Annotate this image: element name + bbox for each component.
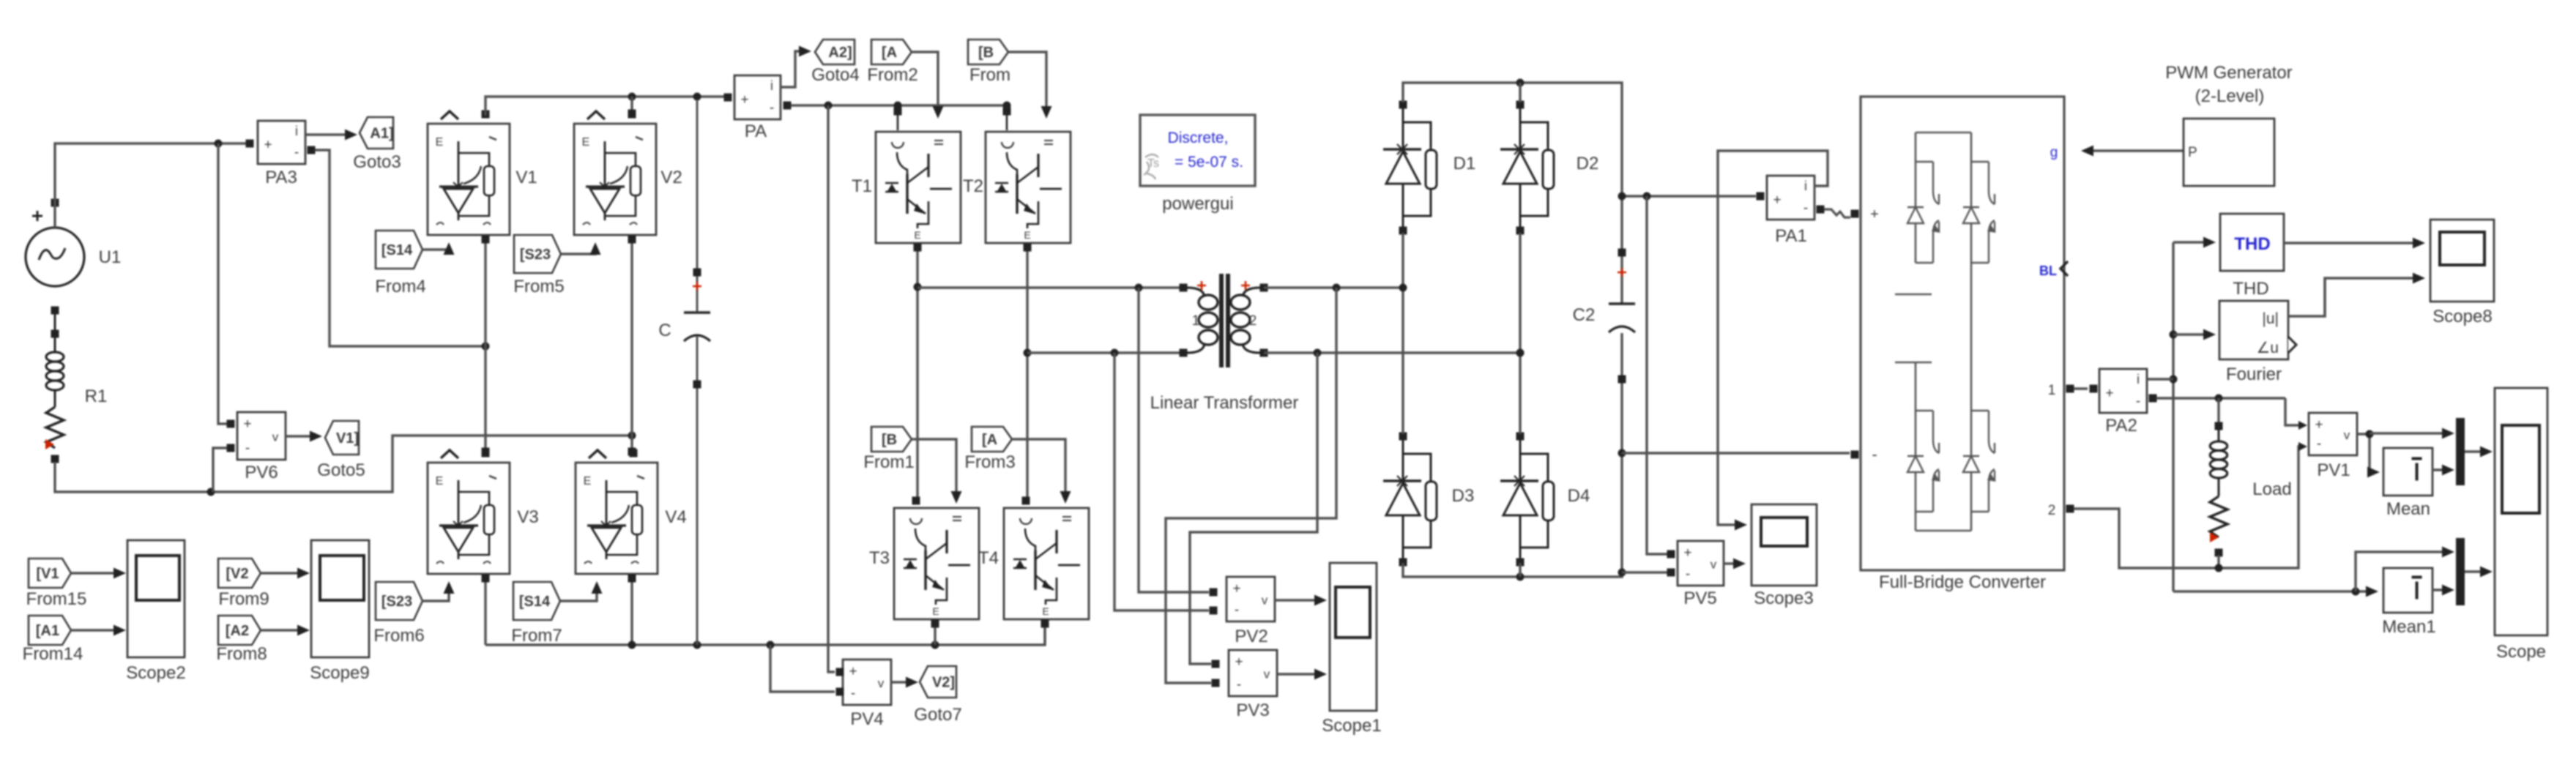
block Mean xyxy=(2383,448,2432,496)
wire Mux1 to Scope xyxy=(2465,567,2493,578)
wire V4 bottom to bus xyxy=(628,575,636,646)
from tag From2 A xyxy=(871,40,912,64)
wire PV5 minus stub xyxy=(1622,571,1668,573)
svg-text:From14: From14 xyxy=(23,644,83,664)
wire PA minus bus xyxy=(791,102,1011,111)
wire From to T2 gate xyxy=(1009,52,1052,119)
svg-text:-: - xyxy=(294,145,299,160)
load branch RL xyxy=(2210,398,2227,568)
svg-text:From3: From3 xyxy=(964,452,1015,472)
wire PV1 v out xyxy=(2357,430,2380,478)
svg-text:V3: V3 xyxy=(517,507,538,527)
svg-text:v: v xyxy=(2344,428,2350,442)
svg-text:P: P xyxy=(2188,145,2197,160)
igbt T4 xyxy=(1004,508,1089,619)
label V4 xyxy=(665,507,686,527)
svg-text:PV3: PV3 xyxy=(1236,701,1269,720)
wire From7 to V4 gate xyxy=(561,581,603,601)
svg-text:Scope9: Scope9 xyxy=(310,663,369,683)
svg-text:∠u: ∠u xyxy=(2256,340,2279,356)
wire PV2 plus xyxy=(1139,288,1209,592)
label From14 xyxy=(23,644,83,664)
label Scope8 xyxy=(2432,307,2492,326)
svg-text:C: C xyxy=(658,321,671,340)
wire DC plus node xyxy=(1618,193,1757,201)
svg-text:i: i xyxy=(770,78,773,93)
from tag From6 S23 xyxy=(376,582,422,620)
wire THD to Scope8 xyxy=(2284,238,2425,249)
wire Fourier u to Scope8 xyxy=(2288,273,2425,317)
label D2 xyxy=(1577,154,1599,173)
from tag From B xyxy=(968,40,1008,64)
svg-text:V1: V1 xyxy=(515,168,537,187)
wire D2 anode vertical xyxy=(1516,233,1525,434)
wire From4 to V1 gate xyxy=(423,242,455,255)
svg-text:+: + xyxy=(1235,654,1243,670)
mux Mux1 xyxy=(2456,538,2465,605)
label Goto7 xyxy=(914,705,961,725)
wire V3 bottom to bus xyxy=(482,575,490,646)
svg-text:i: i xyxy=(2137,372,2140,386)
label T2 xyxy=(963,176,983,196)
wire From5 to V2 gate xyxy=(562,242,601,255)
svg-text:PA1: PA1 xyxy=(1775,226,1807,246)
label V2 xyxy=(660,168,682,187)
label Full-Bridge Converter xyxy=(1879,572,2046,592)
igbt T2 xyxy=(986,107,1071,243)
from tag From3 A xyxy=(972,427,1012,452)
svg-text:A1]: A1] xyxy=(370,126,393,142)
svg-text:V2]: V2] xyxy=(932,675,955,691)
wire current to Mean1 xyxy=(2173,586,2378,597)
from tag From8 A2 xyxy=(218,616,261,645)
label D4 xyxy=(1568,486,1590,506)
svg-text:v: v xyxy=(1710,558,1717,572)
from tag From14 A1 xyxy=(29,616,71,645)
svg-text:T1: T1 xyxy=(852,176,872,196)
svg-text:V2: V2 xyxy=(660,168,682,187)
wire PV2 v to Scope1 xyxy=(1275,595,1327,606)
wire D1 anode vertical xyxy=(1399,233,1407,434)
wire rectifier bottom bus xyxy=(1403,382,1626,581)
svg-text:+: + xyxy=(1773,193,1781,208)
thyristor V1 xyxy=(428,111,510,236)
svg-text:Linear Transformer: Linear Transformer xyxy=(1150,393,1299,413)
wire PV3 minus xyxy=(1166,288,1336,683)
goto tag Goto3 A1 xyxy=(360,117,394,149)
voltage measurement PV4 xyxy=(836,660,892,705)
wire U1 top to PA3 input xyxy=(55,140,249,228)
label Mean1 xyxy=(2382,617,2435,637)
current measurement PA3 xyxy=(246,121,316,164)
from tag From1 B xyxy=(871,427,912,452)
svg-text:+: + xyxy=(849,664,857,679)
wire converter out1 to PA2 xyxy=(2074,385,2098,393)
svg-text:E: E xyxy=(582,136,590,149)
svg-text:BL: BL xyxy=(2039,264,2057,278)
wire From9 to Scope9 xyxy=(261,568,310,579)
label From7 xyxy=(511,626,562,646)
svg-text:Scope8: Scope8 xyxy=(2432,307,2492,326)
svg-text:+: + xyxy=(740,92,748,108)
current measurement PA2 xyxy=(2099,369,2157,413)
svg-text:v: v xyxy=(272,430,279,444)
diode D3 xyxy=(1383,433,1437,567)
svg-text:-: - xyxy=(851,686,855,701)
svg-text:T4: T4 xyxy=(978,548,999,568)
svg-text:Goto4: Goto4 xyxy=(811,65,859,85)
label From xyxy=(969,65,1010,85)
svg-text:PV5: PV5 xyxy=(1683,589,1716,608)
wire PV4 minus branch xyxy=(770,645,835,692)
subsystem Full-Bridge Converter xyxy=(1851,97,2074,570)
svg-text:i: i xyxy=(1804,179,1807,193)
label Linear Transformer xyxy=(1150,393,1299,413)
wire From1 to T3 gate xyxy=(912,439,962,504)
wire V2 bottom to V4 top xyxy=(628,236,636,456)
label R1 xyxy=(85,386,108,406)
label PA3 xyxy=(265,168,297,187)
svg-text:R1: R1 xyxy=(85,386,108,406)
wire From3 to T4 gate xyxy=(1013,439,1071,504)
wire PA3 minus down to V1-V3 node xyxy=(315,150,490,351)
scope Scope3 xyxy=(1752,504,1817,586)
svg-text:E: E xyxy=(914,229,920,241)
svg-text:+: + xyxy=(264,137,272,152)
svg-text:v: v xyxy=(1264,668,1270,681)
svg-text:2: 2 xyxy=(2048,503,2056,518)
label Goto4 xyxy=(811,65,859,85)
wire PV1 v to Mux xyxy=(2370,428,2454,439)
wire PA1 i loop to Scope3 xyxy=(1718,151,1828,531)
svg-text:+: + xyxy=(243,417,251,432)
wire measurement tap vertical xyxy=(2170,242,2178,591)
svg-text:T2: T2 xyxy=(963,176,983,196)
current measurement PA1 xyxy=(1757,176,1825,220)
label Scope1 xyxy=(1322,716,1381,736)
svg-text:Scope2: Scope2 xyxy=(126,663,185,683)
svg-text:E: E xyxy=(436,136,444,149)
scope Scope xyxy=(2495,388,2547,635)
goto tag Goto4 A2 xyxy=(815,40,855,64)
voltage measurement PV2 xyxy=(1210,577,1276,621)
svg-text:Scope: Scope xyxy=(2496,642,2546,662)
svg-text:Scope1: Scope1 xyxy=(1322,716,1381,736)
wire From15 to Scope2 xyxy=(71,568,126,579)
wire DC minus bus xyxy=(1622,452,1850,454)
svg-text:From1: From1 xyxy=(863,452,914,472)
svg-text:+: + xyxy=(1870,206,1879,223)
wire top bus V1 V2 to PA xyxy=(485,93,728,116)
svg-text:PV6: PV6 xyxy=(245,463,278,482)
wire PV5 plus riser xyxy=(1647,196,1668,554)
svg-text:From4: From4 xyxy=(375,277,425,296)
svg-text:E: E xyxy=(1042,605,1049,617)
svg-text:Goto3: Goto3 xyxy=(353,152,401,172)
svg-text:g: g xyxy=(2050,145,2058,160)
wire Mux to Scope xyxy=(2465,447,2493,457)
label From3 xyxy=(964,452,1015,472)
thyristor V2 xyxy=(574,111,656,236)
label PV3 xyxy=(1236,701,1269,720)
wire PA2 i tap xyxy=(2147,378,2173,380)
svg-text:+: + xyxy=(1232,581,1240,597)
wire T2 E to T4 C xyxy=(1022,244,1032,505)
label PA xyxy=(745,122,767,141)
svg-text:From: From xyxy=(969,65,1010,85)
wire Mean1 out to Mux1 xyxy=(2432,585,2454,596)
label Fourier xyxy=(2226,365,2282,384)
label PWM Generator xyxy=(2165,63,2292,106)
wire Mean out to Mux xyxy=(2432,465,2454,476)
diode D1 xyxy=(1383,101,1437,235)
label PV6 xyxy=(245,463,278,482)
svg-text:-: - xyxy=(1803,201,1808,216)
label Scope9 xyxy=(310,663,369,683)
svg-text:[A: [A xyxy=(982,432,997,448)
label PA2 xyxy=(2105,416,2137,436)
svg-text:PV4: PV4 xyxy=(850,709,883,729)
svg-text:Mean: Mean xyxy=(2386,499,2430,519)
label PV4 xyxy=(850,709,883,729)
svg-text:+: + xyxy=(2315,417,2323,433)
diode D2 xyxy=(1500,101,1554,235)
voltage measurement PV3 xyxy=(1212,650,1278,696)
svg-text:[A1: [A1 xyxy=(36,623,59,639)
wire PA2 minus to load node xyxy=(2156,395,2285,403)
svg-text:THD: THD xyxy=(2233,279,2268,299)
voltage measurement PV1 xyxy=(2309,413,2357,455)
from tag From4 S14 xyxy=(376,231,422,269)
svg-text:Full-Bridge Converter: Full-Bridge Converter xyxy=(1879,572,2046,592)
label C xyxy=(658,321,671,340)
svg-text:1: 1 xyxy=(1192,313,1200,329)
from tag From9 V2 xyxy=(218,559,261,588)
svg-text:E: E xyxy=(1024,229,1030,241)
svg-text:-: - xyxy=(770,100,774,116)
wire to THD input xyxy=(2173,237,2216,248)
svg-text:powergui: powergui xyxy=(1162,194,1233,214)
svg-text:Load: Load xyxy=(2252,479,2291,499)
svg-text:D2: D2 xyxy=(1577,154,1599,173)
svg-text:(2-Level): (2-Level) xyxy=(2195,86,2265,106)
svg-text:PA2: PA2 xyxy=(2105,416,2137,436)
svg-text:PV1: PV1 xyxy=(2317,460,2350,480)
svg-text:Discrete,: Discrete, xyxy=(1168,130,1229,146)
svg-text:From5: From5 xyxy=(513,277,564,296)
goto tag Goto5 V1 xyxy=(325,421,359,455)
label T4 xyxy=(978,548,999,568)
block THD xyxy=(2220,214,2284,271)
svg-text:+: + xyxy=(2105,386,2113,401)
label From5 xyxy=(513,277,564,296)
wire R1 bottom bus xyxy=(55,432,636,496)
igbt T1 xyxy=(876,107,961,243)
powergui block xyxy=(1140,115,1255,186)
label Scope3 xyxy=(1754,589,1813,608)
scope Scope8 xyxy=(2430,220,2494,302)
diode D4 xyxy=(1500,433,1554,567)
svg-text:[S23: [S23 xyxy=(381,594,412,610)
label From9 xyxy=(218,589,269,609)
svg-text:[S23: [S23 xyxy=(520,247,551,263)
label From15 xyxy=(26,589,87,609)
wire bottom bus xyxy=(485,628,1045,649)
wire PV3 plus xyxy=(1190,353,1317,664)
from tag From7 S14 xyxy=(513,582,560,620)
wire PV4 v to Goto7 xyxy=(891,677,918,688)
svg-text:v: v xyxy=(1262,594,1268,608)
wire converter out2 loop xyxy=(2074,442,2307,572)
svg-text:-: - xyxy=(1872,445,1877,463)
svg-text:Scope3: Scope3 xyxy=(1754,589,1813,608)
svg-text:From8: From8 xyxy=(216,644,267,664)
wire T4 E down xyxy=(1041,620,1049,646)
svg-text:[S14: [S14 xyxy=(519,594,551,610)
svg-text:|u|: |u| xyxy=(2262,310,2279,327)
from tag From5 S23 xyxy=(514,235,561,273)
block PWM Generator xyxy=(2184,119,2274,186)
inductor-resistor branch R1 xyxy=(45,313,64,463)
wire PA1 minus to converter xyxy=(1824,209,1850,217)
svg-text:-: - xyxy=(1686,567,1690,582)
svg-text:C2: C2 xyxy=(1573,305,1596,325)
linear transformer xyxy=(1180,274,1268,367)
svg-text:E: E xyxy=(584,475,592,488)
label Scope xyxy=(2496,642,2546,662)
mux Mux xyxy=(2456,418,2465,485)
svg-text:Goto5: Goto5 xyxy=(317,460,365,480)
capacitor C xyxy=(684,100,710,645)
svg-text:A2]: A2] xyxy=(828,45,852,61)
thyristor V4 xyxy=(576,449,658,575)
svg-text:From7: From7 xyxy=(511,626,562,646)
svg-text:[A: [A xyxy=(882,45,897,61)
scope Scope1 xyxy=(1330,563,1377,711)
svg-text:-: - xyxy=(1235,602,1239,618)
label C2 xyxy=(1573,305,1596,325)
svg-text:-: - xyxy=(245,441,250,456)
label T1 xyxy=(852,176,872,196)
wire V1 bottom to V3 top xyxy=(482,236,490,456)
svg-text:+: + xyxy=(1683,545,1691,561)
label Mean xyxy=(2386,499,2430,519)
wire rectifier top bus xyxy=(1403,79,1622,197)
scope Scope2 xyxy=(127,540,185,657)
svg-text:PWM Generator: PWM Generator xyxy=(2165,63,2292,83)
svg-text:[A2: [A2 xyxy=(226,623,249,639)
current measurement PA xyxy=(724,75,792,119)
capacitor C2 xyxy=(1609,196,1635,384)
goto tag Goto7 V2 xyxy=(920,666,956,698)
svg-text:V4: V4 xyxy=(665,507,686,527)
svg-text:PA3: PA3 xyxy=(265,168,297,187)
wire secondary top to bridge xyxy=(1264,284,1403,292)
wire T1 node to primary top xyxy=(917,284,1180,292)
svg-text:E: E xyxy=(436,475,444,488)
svg-text:[B: [B xyxy=(882,432,897,448)
svg-text:Goto7: Goto7 xyxy=(914,705,961,725)
label Load xyxy=(2252,479,2291,499)
svg-text:T3: T3 xyxy=(869,548,890,568)
wire PA i to Goto4 xyxy=(781,46,811,88)
voltage measurement PV6 xyxy=(227,412,286,460)
label Goto3 xyxy=(353,152,401,172)
svg-text:Mean1: Mean1 xyxy=(2382,617,2435,637)
svg-text:-: - xyxy=(1237,677,1241,692)
svg-text:[V2: [V2 xyxy=(226,566,248,582)
wire DC link vertical xyxy=(828,105,835,672)
wire PV2 minus xyxy=(1114,353,1209,610)
from tag From15 V1 xyxy=(29,559,71,588)
label Scope2 xyxy=(126,663,185,683)
label Goto5 xyxy=(317,460,365,480)
wire PWM P to converter g xyxy=(2081,146,2183,157)
label PA1 xyxy=(1775,226,1807,246)
wire secondary bottom to bridge xyxy=(1264,349,1525,357)
wire PA3 i to Goto3 xyxy=(305,130,357,141)
label PV2 xyxy=(1235,627,1267,646)
label D3 xyxy=(1452,486,1475,506)
svg-text:V1]: V1] xyxy=(336,430,359,447)
svg-text:U1: U1 xyxy=(99,247,122,267)
wire PV6 v to Goto5 xyxy=(286,431,322,442)
wire PV6 plus riser xyxy=(218,143,227,424)
svg-text:= 5e-07 s.: = 5e-07 s. xyxy=(1175,154,1243,171)
wire T1 E to T3 C xyxy=(912,244,922,505)
wire T2 node to primary bottom xyxy=(1027,349,1180,357)
label U1 xyxy=(99,247,122,267)
wire PV3 v to Scope1 xyxy=(1277,669,1327,680)
svg-text:-: - xyxy=(2136,394,2140,409)
label THD xyxy=(2233,279,2268,299)
svg-text:D3: D3 xyxy=(1452,486,1475,506)
label V1 xyxy=(515,168,537,187)
wire PV5 v to Scope3 xyxy=(1724,559,1746,569)
AC voltage source U1 xyxy=(26,199,84,315)
svg-text:THD: THD xyxy=(2234,234,2270,254)
igbt T3 xyxy=(894,508,979,619)
label From1 xyxy=(863,452,914,472)
wire T3 E down xyxy=(931,620,939,646)
svg-text:From9: From9 xyxy=(218,589,269,609)
svg-text:Ts: Ts xyxy=(1147,157,1159,170)
thyristor V3 xyxy=(428,449,510,575)
svg-text:2: 2 xyxy=(1249,313,1257,329)
svg-text:From6: From6 xyxy=(373,626,424,646)
label From2 xyxy=(867,65,917,85)
svg-text:[B: [B xyxy=(978,45,994,61)
wire From6 to V3 gate xyxy=(423,581,455,601)
wire PV6 minus xyxy=(213,448,227,492)
voltage measurement PV5 xyxy=(1667,541,1724,586)
svg-text:i: i xyxy=(295,124,298,138)
svg-text:[V1: [V1 xyxy=(36,566,59,582)
svg-text:From2: From2 xyxy=(867,65,917,85)
svg-text:E: E xyxy=(932,605,939,617)
label PV1 xyxy=(2317,460,2350,480)
block Mean1 xyxy=(2383,568,2432,613)
block Fourier xyxy=(2219,301,2296,359)
svg-text:-: - xyxy=(2317,436,2321,452)
wire current to Mux1 upper xyxy=(2356,547,2454,592)
svg-text:PA: PA xyxy=(745,122,767,141)
svg-text:1: 1 xyxy=(2048,383,2056,398)
label From6 xyxy=(373,626,424,646)
wire From2 to T1 gate xyxy=(912,52,944,119)
svg-text:[S14: [S14 xyxy=(381,242,413,258)
svg-text:From15: From15 xyxy=(26,589,87,609)
